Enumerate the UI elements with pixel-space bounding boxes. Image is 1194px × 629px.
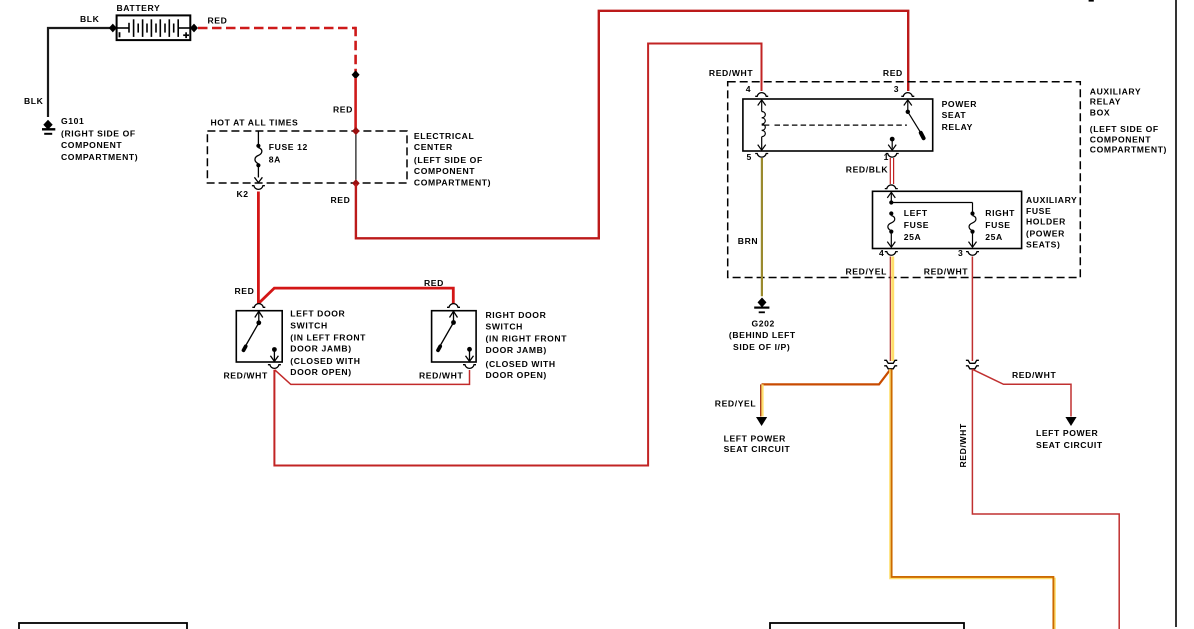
svg-text:RED/BLK: RED/BLK [846, 164, 889, 174]
svg-text:COMPONENT: COMPONENT [61, 140, 122, 150]
svg-text:RED: RED [235, 286, 255, 296]
wire RED/WHT loop to relay pin 4 [274, 44, 761, 466]
wire RED/WHT switches jumper [275, 370, 470, 385]
text fragment (top edge) [1089, 0, 1094, 2]
junction diamond on red wire [352, 70, 360, 79]
connector relay pin 1 [886, 154, 899, 158]
fuse RIGHT FUSE 25A [969, 211, 977, 247]
svg-text:FUSE 12: FUSE 12 [269, 142, 308, 152]
svg-text:SIDE OF I/P): SIDE OF I/P) [733, 342, 790, 352]
fuse holder input arrow [887, 192, 895, 201]
svg-text:3: 3 [894, 84, 899, 94]
border line (right) [1175, 0, 1177, 627]
arrow LEFT POWER SEAT CIRCUIT (RED/WHT) [1065, 417, 1076, 426]
auxiliary fuse holder box [873, 191, 1022, 248]
svg-text:COMPARTMENT): COMPARTMENT) [61, 152, 138, 162]
ground G202 [754, 298, 769, 312]
svg-text:RED/WHT: RED/WHT [958, 423, 968, 467]
wire RED feed to relay pin 3 [356, 11, 908, 239]
wire RED/BLK relay pin 1 to fuse holder [889, 158, 891, 184]
wire RED/YEL branch to left arrow [762, 369, 891, 384]
wire RED/WHT branch to right arrow [972, 369, 1071, 416]
connector fuse holder input [885, 185, 898, 189]
relay switch contact (pins 3-1) [888, 100, 923, 150]
svg-text:POWER: POWER [942, 99, 978, 109]
svg-text:G101: G101 [61, 116, 84, 126]
svg-text:DOOR JAMB): DOOR JAMB) [486, 345, 547, 355]
svg-text:RED/WHT: RED/WHT [1012, 370, 1056, 380]
auxiliary relay box (dashed) [728, 82, 1081, 278]
wire RED dashed battery feed [198, 27, 356, 30]
svg-text:BRN: BRN [738, 236, 758, 246]
inline connector (RED/YEL) [884, 360, 897, 369]
svg-text:RELAY: RELAY [942, 122, 973, 132]
relay mechanical link (dashed) [775, 124, 907, 126]
component box (bottom left, cut off) [19, 623, 187, 629]
svg-text:DOOR OPEN): DOOR OPEN) [486, 370, 547, 380]
left door switch S1 [236, 311, 282, 362]
svg-text:COMPONENT: COMPONENT [1090, 134, 1151, 144]
svg-text:(CLOSED WITH: (CLOSED WITH [486, 359, 556, 369]
junction diamond battery left [109, 24, 117, 33]
svg-text:SEAT CIRCUIT: SEAT CIRCUIT [1036, 440, 1103, 450]
svg-text:SEATS): SEATS) [1026, 240, 1060, 250]
connector (right door switch bottom) [463, 365, 476, 369]
wire RED/YEL fuse holder pin 4 down [891, 257, 894, 362]
ground G101 [42, 121, 55, 134]
svg-text:(IN RIGHT FRONT: (IN RIGHT FRONT [486, 334, 568, 344]
connector (left door switch bottom) [268, 365, 281, 369]
svg-text:4: 4 [879, 248, 884, 258]
svg-text:ELECTRICAL: ELECTRICAL [414, 131, 474, 141]
svg-text:LEFT POWER: LEFT POWER [1036, 428, 1099, 438]
svg-text:4: 4 [746, 84, 751, 94]
svg-text:BOX: BOX [1090, 107, 1110, 117]
svg-text:FUSE: FUSE [1026, 206, 1051, 216]
svg-text:3: 3 [958, 248, 963, 258]
svg-text:RELAY: RELAY [1090, 97, 1121, 107]
svg-text:(LEFT SIDE OF: (LEFT SIDE OF [414, 155, 483, 165]
fuse LEFT FUSE 25A [887, 211, 895, 247]
svg-text:RIGHT DOOR: RIGHT DOOR [486, 310, 547, 320]
svg-text:COMPARTMENT): COMPARTMENT) [1090, 145, 1167, 155]
connector relay pin 4 [755, 93, 768, 97]
svg-text:RED/WHT: RED/WHT [924, 267, 968, 277]
svg-text:LEFT: LEFT [904, 208, 928, 218]
svg-text:AUXILIARY: AUXILIARY [1090, 87, 1141, 97]
junction diamond red (EC top) [352, 127, 360, 135]
junction diamond battery right [190, 24, 198, 33]
connector fuse holder pin 4 [885, 252, 898, 256]
junction diamond red (EC bottom) [352, 179, 360, 187]
svg-text:BLK: BLK [24, 96, 44, 106]
connector (left door switch top) [252, 304, 265, 308]
wire RED from K2 to door switches [257, 192, 260, 304]
svg-text:HOLDER: HOLDER [1026, 217, 1066, 227]
component box (bottom center, cut off) [770, 623, 964, 629]
svg-text:(BEHIND LEFT: (BEHIND LEFT [729, 330, 796, 340]
svg-text:COMPONENT: COMPONENT [414, 166, 475, 176]
svg-text:RED: RED [208, 16, 228, 26]
svg-text:RED/YEL: RED/YEL [846, 267, 887, 277]
connector K2 (below electrical center) [252, 186, 265, 190]
svg-text:FUSE: FUSE [904, 220, 929, 230]
svg-text:25A: 25A [904, 232, 922, 242]
svg-text:RED/WHT: RED/WHT [224, 371, 268, 381]
wire RED/YEL continuation to bottom [890, 369, 1055, 629]
svg-text:RED: RED [333, 105, 353, 115]
fuse F12 (FUSE 12 8A) [254, 131, 262, 183]
relay coil (pins 4-5) [758, 100, 770, 150]
wire (red) through electrical center [355, 131, 357, 183]
svg-text:8A: 8A [269, 154, 281, 164]
svg-text:AUXILIARY: AUXILIARY [1026, 195, 1077, 205]
svg-text:SWITCH: SWITCH [290, 320, 328, 330]
svg-text:RED: RED [331, 195, 351, 205]
right door switch S2 [432, 311, 477, 362]
power seat relay K1 [743, 99, 933, 151]
svg-text:RIGHT: RIGHT [985, 208, 1015, 218]
svg-text:(LEFT SIDE OF: (LEFT SIDE OF [1090, 124, 1159, 134]
svg-text:LEFT DOOR: LEFT DOOR [290, 309, 345, 319]
wire RED/YEL branch underlay [881, 371, 890, 383]
svg-text:G202: G202 [752, 318, 775, 328]
connector relay pin 5 [755, 154, 768, 158]
svg-text:RED/YEL: RED/YEL [715, 398, 756, 408]
svg-text:SWITCH: SWITCH [486, 321, 524, 331]
svg-text:(CLOSED WITH: (CLOSED WITH [290, 356, 360, 366]
arrow LEFT POWER SEAT CIRCUIT (RED/YEL) [756, 417, 767, 426]
battery B1 [117, 15, 191, 40]
svg-text:CENTER: CENTER [414, 142, 453, 152]
svg-text:HOT AT ALL TIMES: HOT AT ALL TIMES [211, 117, 299, 127]
svg-text:RED: RED [424, 278, 444, 288]
connector relay pin 3 [901, 93, 914, 97]
svg-text:SEAT CIRCUIT: SEAT CIRCUIT [724, 444, 791, 454]
wire RED solid into electrical center [354, 78, 357, 131]
svg-text:BATTERY: BATTERY [117, 3, 161, 13]
inline connector (RED/WHT) [966, 360, 979, 369]
node fuse holder bus [889, 200, 893, 204]
svg-text:25A: 25A [985, 232, 1003, 242]
svg-text:5: 5 [747, 152, 752, 162]
wire RED/WHT main to bottom right [972, 369, 1119, 629]
svg-text:SEAT: SEAT [942, 110, 967, 120]
svg-text:LEFT POWER: LEFT POWER [724, 433, 787, 443]
svg-text:RED/WHT: RED/WHT [419, 371, 463, 381]
svg-text:K2: K2 [237, 189, 249, 199]
svg-text:(POWER: (POWER [1026, 229, 1065, 239]
svg-text:COMPARTMENT): COMPARTMENT) [414, 177, 491, 187]
svg-text:BLK: BLK [80, 14, 100, 24]
wire RED/WHT fuse holder pin 3 down [971, 257, 973, 362]
connector (right door switch top) [447, 304, 460, 308]
svg-text:RED: RED [883, 68, 903, 78]
electrical center dashed box [207, 131, 407, 183]
svg-text:DOOR OPEN): DOOR OPEN) [290, 367, 351, 377]
svg-text:(IN LEFT FRONT: (IN LEFT FRONT [290, 332, 366, 342]
svg-text:(RIGHT SIDE OF: (RIGHT SIDE OF [61, 128, 136, 138]
svg-text:DOOR JAMB): DOOR JAMB) [290, 343, 351, 353]
wire BLK battery to ground [48, 28, 112, 117]
svg-text:FUSE: FUSE [985, 220, 1010, 230]
svg-text:RED/WHT: RED/WHT [709, 68, 753, 78]
wire BRN relay pin 5 to G202 [761, 158, 763, 296]
connector fuse holder pin 3 [966, 252, 979, 256]
